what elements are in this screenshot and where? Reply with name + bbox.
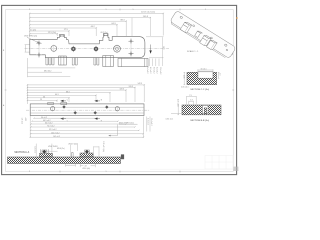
svg-text:88.3: 88.3: [66, 91, 70, 93]
zone tick bottom 3: [179, 171, 181, 173]
svg-text:Ø3.6 (4x): Ø3.6 (4x): [83, 168, 91, 170]
fold mark bottom right: [234, 167, 239, 171]
comb teeth group B: [72, 58, 77, 65]
svg-text:43.2 (2x): 43.2 (2x): [100, 32, 107, 34]
sheet outer border: [2, 5, 237, 174]
rivet diamond 3 view2: [94, 111, 97, 114]
svg-text:16 ±0.1: 16 ±0.1: [201, 68, 207, 70]
left small dims view1: [25, 44, 30, 46]
centerline view1: [25, 48, 170, 50]
H clip tab 1 detail: [60, 35, 63, 37]
leader to star hole: [27, 37, 38, 42]
svg-text:4.05 ±0.1: 4.05 ±0.1: [176, 99, 178, 106]
svg-text:4.05: 4.05: [24, 118, 26, 122]
rivet diamond 2 view2: [74, 111, 77, 114]
zone tick top 2: [119, 9, 121, 11]
svg-text:102.3 ±0.2: 102.3 ±0.2: [51, 132, 59, 134]
svg-text:29: 29: [40, 99, 42, 101]
orange revision tick right edge: [236, 17, 237, 19]
sheet inner frame: [6, 10, 234, 172]
svg-text:Ø3.6 (2x): Ø3.6 (2x): [57, 148, 65, 150]
svg-text:Ø10.9 (10x): Ø10.9 (10x): [69, 143, 79, 145]
svg-text:SCALE 1 : 1: SCALE 1 : 1: [187, 50, 199, 53]
svg-text:Ø3.6 THRU (2x): Ø3.6 THRU (2x): [24, 36, 37, 38]
A-A dims below: [66, 164, 96, 167]
section arrow on view1: [149, 45, 151, 54]
dimension stack above view2: [27, 84, 144, 104]
svg-text:4.6 ±0.2: 4.6 ±0.2: [147, 118, 149, 124]
dim ticks view2 below: [30, 118, 145, 138]
svg-text:11.4 ±0.2: 11.4 ±0.2: [159, 67, 161, 74]
svg-text:1: 1: [133, 9, 134, 11]
section B cut arrows: [94, 100, 103, 123]
rivet diamond 4 view2: [105, 105, 108, 108]
comb teeth group C: [94, 58, 99, 65]
iso clip 1: [180, 21, 191, 33]
section C cut arrows: [60, 100, 69, 123]
B-B post in slot: [204, 108, 206, 114]
svg-text:4.3: 4.3: [190, 99, 193, 101]
zone tick right: [232, 89, 234, 91]
top tab 1 view2: [48, 103, 54, 105]
zone tick left: [5, 89, 7, 91]
faint title block bottom right: [150, 156, 233, 170]
svg-text:34 ±0.2: 34 ±0.2: [41, 117, 47, 119]
hole circle A view2: [51, 107, 55, 111]
svg-text:7.5: 7.5: [189, 95, 192, 97]
iso plate body: [170, 10, 236, 58]
right rotated dims view1: [146, 37, 164, 66]
svg-text:123.3 ±0.2 (2x): 123.3 ±0.2 (2x): [141, 12, 155, 14]
svg-text:12.5 (2x): 12.5 (2x): [48, 32, 57, 34]
centerline view2: [26, 109, 150, 111]
svg-text:46.5 ±0.2: 46.5 ±0.2: [43, 120, 50, 122]
inner edge lines view2: [30, 106, 144, 108]
iso clip 2: [200, 34, 211, 46]
svg-text:109.3: 109.3: [143, 16, 149, 18]
svg-text:4.05: 4.05: [182, 75, 184, 79]
svg-text:142 ±0.2: 142 ±0.2: [53, 136, 60, 138]
svg-text:SECTION B-B (2x): SECTION B-B (2x): [190, 120, 209, 122]
zone tick bottom 2: [119, 171, 121, 173]
long tab rect right below plate: [118, 58, 148, 66]
comb teeth group A: [46, 58, 54, 65]
H clip tab 2 detail: [104, 34, 107, 36]
iso clip 3: [207, 39, 217, 50]
svg-text:SECTION A-A: SECTION A-A: [14, 151, 29, 154]
B-B dims: [171, 96, 196, 115]
hole circle B view2: [115, 107, 119, 111]
hex nut tick lines: [72, 46, 74, 53]
svg-text:1.6 ±0.2: 1.6 ±0.2: [21, 118, 23, 124]
svg-text:Ø10 40.2: Ø10 40.2: [44, 71, 51, 73]
iso clip small: [195, 30, 202, 38]
A-A bar end block: [121, 154, 124, 159]
dimension stack below view2: [30, 116, 150, 138]
iso plate thickness edge: [170, 17, 233, 60]
step inner edge: [69, 43, 99, 45]
svg-text:7.5 (2x): 7.5 (2x): [30, 30, 36, 32]
svg-text:11.4 ±0.2: 11.4 ±0.2: [150, 118, 152, 125]
svg-text:36: 36: [43, 96, 45, 98]
svg-text:1.5: 1.5: [219, 73, 221, 76]
B-B slot: [202, 105, 208, 113]
hex nut 2: [94, 47, 98, 52]
leader for note: [109, 124, 118, 135]
block B below plate: [103, 56, 114, 67]
svg-text:6.8 ±0.2: 6.8 ±0.2: [152, 67, 154, 73]
zone tick top 1: [59, 9, 61, 11]
svg-text:4.5 ±0.1: 4.5 ±0.1: [34, 146, 36, 152]
iso hole 4: [224, 44, 227, 47]
svg-text:2.4 ±0.2: 2.4 ±0.2: [146, 67, 148, 73]
A-A hatched bar: [8, 157, 121, 164]
star hole marks view1: [36, 38, 134, 57]
zone tick top 3: [179, 9, 181, 11]
B-B hatched bar: [182, 105, 221, 115]
svg-text:1: 1: [106, 171, 107, 173]
hole circle 1: [51, 46, 57, 52]
block A below plate: [59, 56, 67, 65]
svg-text:0.35 ±0.1: 0.35 ±0.1: [166, 118, 173, 120]
iso hole 2: [192, 25, 195, 27]
rivet diamond 1 view2: [62, 105, 65, 108]
iso hole 5: [226, 49, 228, 51]
svg-text:1: 1: [106, 9, 107, 11]
plate outline view1: [30, 34, 145, 58]
svg-text:126.3: 126.3: [129, 86, 134, 88]
svg-text:2: 2: [29, 9, 30, 11]
svg-text:2.05 ±0.1: 2.05 ±0.1: [181, 87, 188, 89]
svg-text:SECTION C-C (2x): SECTION C-C (2x): [190, 89, 209, 91]
hex nut 1: [71, 47, 75, 52]
svg-text:4.6 ±0.2: 4.6 ±0.2: [149, 67, 151, 73]
svg-text:74.3 ±0.2: 74.3 ±0.2: [47, 126, 54, 128]
svg-text:142.3: 142.3: [138, 83, 143, 85]
zone tick bottom 1: [59, 171, 61, 173]
svg-text:92.3 ±0.2: 92.3 ±0.2: [49, 129, 56, 131]
A-A clip 2: [72, 150, 93, 157]
svg-text:64.3 ±0.2: 64.3 ±0.2: [45, 123, 52, 125]
svg-text:2: 2: [29, 171, 30, 173]
plate outline view2: [30, 104, 144, 116]
A-A clip 1 dims: [36, 144, 57, 157]
svg-text:9.4 ±0.2: 9.4 ±0.2: [156, 67, 158, 73]
C-C dims: [184, 69, 220, 84]
dimension stack above view1: [30, 13, 163, 38]
svg-text:18.2: 18.2: [162, 46, 164, 50]
svg-text:1.35 ±0.1 (6x): 1.35 ±0.1 (6x): [102, 141, 104, 152]
dims below view1: [28, 58, 76, 77]
dim ticks view2 above: [27, 84, 145, 101]
C-C hatched body: [187, 72, 217, 84]
A-A clip 2 dims: [70, 145, 99, 157]
hole circle 2: [114, 45, 121, 52]
svg-text:109.3: 109.3: [120, 88, 125, 90]
dim ticks view1: [29, 13, 164, 35]
A-A clip 1: [40, 149, 53, 157]
top tab 2 view2: [61, 103, 67, 105]
C-C notch: [198, 72, 213, 78]
svg-text:1: 1: [205, 9, 206, 11]
iso hole 3: [210, 37, 213, 39]
iso hole 1: [180, 16, 183, 19]
svg-text:64.3: 64.3: [55, 94, 59, 96]
